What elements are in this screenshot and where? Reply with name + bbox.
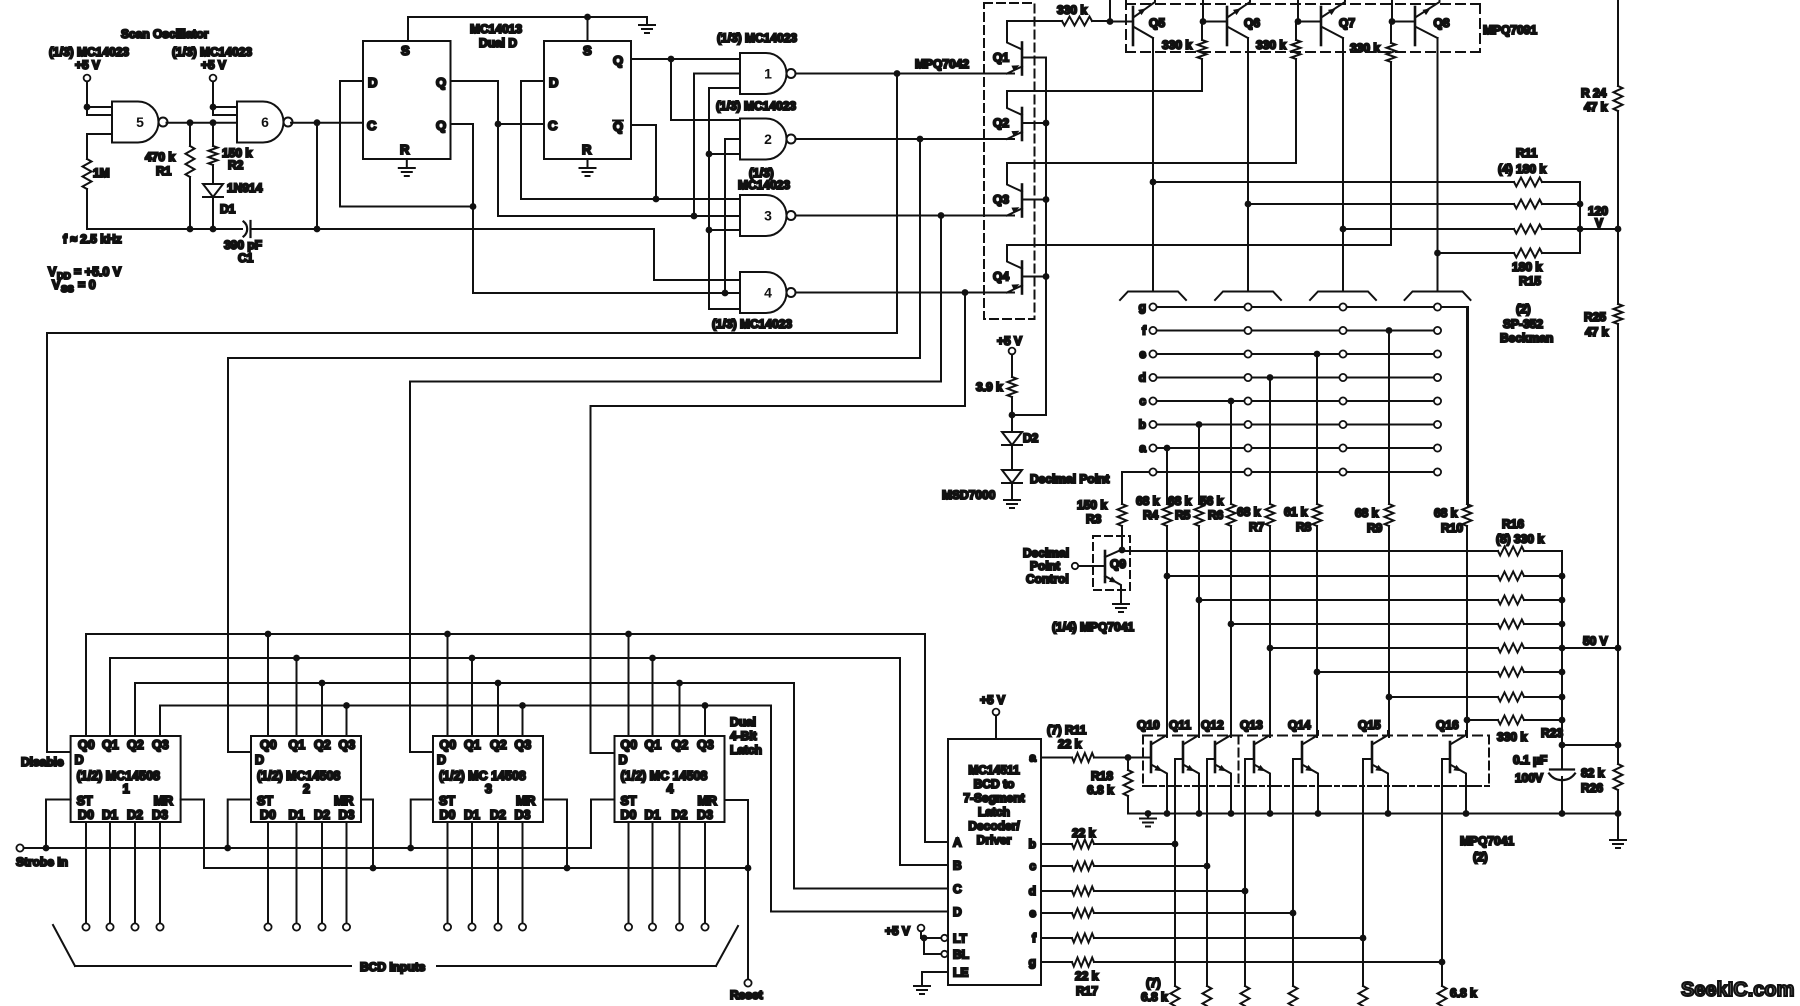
junction R5 to R16 row3 <box>1196 597 1203 604</box>
svg-text:Q: Q <box>613 53 623 68</box>
wire gate5 output <box>167 122 238 124</box>
wire latch Q1 riser x296.5 <box>296 658 298 736</box>
svg-text:68 k: 68 k <box>1434 506 1458 520</box>
wire segment row a <box>1153 447 1438 449</box>
wire gate5 input2 <box>87 114 112 116</box>
resistor R8 61 k <box>1313 504 1322 526</box>
svg-text:S: S <box>583 43 592 58</box>
wire b output <box>1041 843 1072 845</box>
wire Q3 collector line <box>1007 59 1296 163</box>
dashed box Q9 <box>1093 536 1130 590</box>
wire e junction to 6.8k <box>1292 913 1294 986</box>
junction FF1 Qbar feedback node <box>470 203 477 210</box>
wire d junction to Q base <box>1245 759 1254 891</box>
ground FF1 R <box>399 168 415 176</box>
svg-text:150 k: 150 k <box>1077 498 1107 512</box>
junction R6 to R16 row4 <box>1228 621 1235 628</box>
svg-text:D: D <box>619 753 628 767</box>
wire Q1-Q4 base bus <box>1045 58 1047 416</box>
junction gate1 output drop <box>894 70 901 77</box>
wire dp row to R3 <box>1121 472 1123 504</box>
wire R26 bottom stub <box>1617 790 1619 814</box>
wire strobe line <box>24 800 615 849</box>
wire FF2 Q to gate2 top <box>671 59 740 120</box>
diode D2 <box>1002 432 1022 445</box>
transistor Q3 (MPQ7042 pnp) <box>1007 164 1046 217</box>
svg-text:ST: ST <box>77 794 93 808</box>
junction R16 row3 bus <box>1559 597 1566 604</box>
junction d row to R7 column <box>1267 374 1274 381</box>
wire rail R25 down <box>1617 324 1619 745</box>
svg-text:D2: D2 <box>314 808 330 822</box>
terminal latch4 D2 <box>676 923 683 930</box>
svg-text:3: 3 <box>485 782 492 796</box>
resistor R24 47k <box>1614 86 1623 111</box>
ground right rail <box>1610 840 1626 848</box>
wire R10 top column <box>1466 307 1468 504</box>
wire Q2 bus to MC14511 C <box>135 683 948 889</box>
svg-text:(1/3) MC14023: (1/3) MC14023 <box>716 99 796 113</box>
svg-text:68 k: 68 k <box>1237 505 1261 519</box>
transistor Q14 (MPQ7041) <box>1302 731 1318 814</box>
wire 3.9k to D2 <box>1011 397 1013 432</box>
svg-text:47 k: 47 k <box>1585 325 1609 339</box>
wire latch Q1 riser x652.5 <box>652 658 654 736</box>
wire R4 top column <box>1166 448 1168 504</box>
wire segment row c <box>1153 400 1438 402</box>
resistor 22k c <box>1072 862 1094 871</box>
svg-text:(2): (2) <box>1473 850 1488 864</box>
svg-text:LE: LE <box>953 966 968 980</box>
svg-text:4-Bit: 4-Bit <box>730 729 757 743</box>
svg-text:= 0: = 0 <box>78 278 96 292</box>
wire +5V to gate5 inputs <box>86 81 88 115</box>
svg-text:22 k: 22 k <box>1058 737 1082 751</box>
svg-text:R9: R9 <box>1367 521 1383 535</box>
svg-text:A: A <box>953 836 962 850</box>
junction Q2 base on bus <box>1043 120 1050 127</box>
transistor Q12 (MPQ7041) <box>1215 731 1231 814</box>
NAND gate 4 (1/3 MC14023) <box>740 272 796 313</box>
svg-text:5: 5 <box>136 114 144 130</box>
junction strobe latch1 <box>43 845 50 852</box>
wire latch3 D1 input <box>471 822 473 923</box>
resistor R6 56 k <box>1227 504 1236 526</box>
node display circle b3 <box>1339 421 1346 428</box>
junction FF2 S on S line <box>584 14 591 21</box>
resistor 6.8k g (cut at bottom) <box>1438 986 1447 1006</box>
wire latch2 D2 input <box>321 822 323 923</box>
wire BCD brace left line <box>75 965 351 967</box>
node display circle g4 <box>1434 303 1441 310</box>
wire latch4 D2 input <box>679 822 681 923</box>
wire R9 top column <box>1388 331 1390 505</box>
resistor R16-8 330k <box>1498 716 1524 725</box>
svg-text:MR: MR <box>154 794 173 808</box>
svg-text:Latch: Latch <box>730 743 762 757</box>
dashed box MPQ7042 Q1-Q4 <box>984 3 1035 319</box>
wire R16 row8 line <box>1467 719 1498 721</box>
junction 120V on rail <box>1615 226 1622 233</box>
svg-text:D2: D2 <box>1023 431 1039 445</box>
svg-text:+5 V: +5 V <box>201 58 226 72</box>
wire R16 row1 to bus <box>1524 551 1562 720</box>
wire Q8 collector column <box>1437 38 1439 292</box>
display digit 1 common anode symbol <box>1120 292 1186 301</box>
dashed box MPQ7041 top edge <box>1143 735 1489 737</box>
terminal latch3 D2 <box>494 923 501 930</box>
svg-text:+5 V: +5 V <box>980 693 1005 707</box>
terminal latch3 D3 <box>519 923 526 930</box>
svg-text:Q0: Q0 <box>621 738 638 752</box>
NAND gate 6 (1/3 MC14023) <box>237 102 293 143</box>
wire FF1 Qbar down <box>451 124 474 293</box>
resistor R7 68 k <box>1266 504 1275 526</box>
svg-text:Q1: Q1 <box>993 51 1009 65</box>
NAND gate 1 (1/3 MC14023) <box>740 53 796 94</box>
svg-text:Scan Oscillator: Scan Oscillator <box>121 27 209 41</box>
svg-text:R23: R23 <box>1541 726 1563 740</box>
junction Q0 bus x628.5 <box>625 631 632 638</box>
svg-text:Decimal: Decimal <box>1023 546 1069 560</box>
svg-text:D: D <box>953 905 962 919</box>
junction e row to R8 column <box>1314 351 1321 358</box>
wire latch4 D1 input <box>652 822 654 923</box>
junction FF2 Qbar on gate3 top line <box>653 196 660 203</box>
junction gate6 input3 / R2 top <box>210 119 217 126</box>
junction Q7 base <box>1295 18 1302 25</box>
junction Q5 collector to 180k row1 <box>1150 179 1157 186</box>
svg-text:Q1: Q1 <box>289 738 306 752</box>
wire R16 row5 to bus <box>1524 647 1562 649</box>
svg-text:3: 3 <box>764 208 772 224</box>
wire R9 bottom column <box>1388 526 1390 737</box>
wire g output <box>1041 961 1072 963</box>
svg-text:Disable: Disable <box>21 755 64 769</box>
wire gate2 mid input from gate4 mid line <box>725 139 740 293</box>
svg-text:D3: D3 <box>515 808 531 822</box>
svg-text:Q3: Q3 <box>697 738 714 752</box>
node display circle e2 <box>1244 350 1251 357</box>
junction R16 row2 bus <box>1559 573 1566 580</box>
svg-text:82 k: 82 k <box>1581 766 1605 780</box>
junction Q16 emitter on bus <box>1463 810 1470 817</box>
terminal +5V gate6 <box>210 75 217 82</box>
node display circle e3 <box>1339 350 1346 357</box>
ground LE <box>914 986 930 994</box>
terminal latch4 D1 <box>649 923 656 930</box>
resistor 22k g <box>1072 958 1094 967</box>
resistor R16-7 330k <box>1498 693 1524 702</box>
ground Q9 emitter <box>1113 600 1129 612</box>
wire strobe to latch1 ST <box>46 800 71 849</box>
svg-text:D1: D1 <box>289 808 305 822</box>
node display circle f2 <box>1244 327 1251 334</box>
node display circle d3 <box>1339 374 1346 381</box>
wire FF2 Qbar down <box>631 125 656 199</box>
wire Q7 base stub to top edge <box>1297 0 1299 22</box>
svg-text:6: 6 <box>261 114 269 130</box>
wire d line to junction <box>1094 890 1245 892</box>
resistor R3 150k <box>1118 504 1127 526</box>
svg-text:R8: R8 <box>1296 520 1312 534</box>
svg-text:C: C <box>548 118 558 133</box>
junction R4 to R16 row2 <box>1164 573 1171 580</box>
transistor Q6 (MPQ7091) <box>1227 0 1250 45</box>
svg-text:BCD Inputs: BCD Inputs <box>360 960 426 974</box>
junction 50V on rail <box>1615 645 1622 652</box>
junction gate6 output drop on feedback line <box>314 226 321 233</box>
wire 180k row4 <box>1438 252 1515 254</box>
ground emitter bus <box>1140 814 1156 827</box>
wire FF1 D feedback <box>340 81 473 207</box>
wire R7 top column <box>1269 378 1271 505</box>
wire 180k row1 to bus <box>1542 182 1580 253</box>
junction Q3 bus x346.5 <box>343 702 350 709</box>
wire b junction to Q base <box>1175 759 1183 844</box>
wire 180k row2 <box>1248 203 1514 205</box>
svg-text:(1/2) MC14508: (1/2) MC14508 <box>257 769 340 783</box>
wire Q6 base stub to top edge <box>1202 0 1204 22</box>
svg-text:Q10: Q10 <box>1137 718 1160 732</box>
resistor R10 68 k <box>1463 504 1472 526</box>
wire oscillator feedback line left <box>87 228 242 230</box>
svg-text:22 k: 22 k <box>1075 969 1099 983</box>
wire latch4 D3 input <box>704 822 706 923</box>
svg-text:Driver: Driver <box>977 833 1012 847</box>
wire g line to junction <box>1094 961 1442 963</box>
wire Q1 collector line <box>1007 20 1062 22</box>
wire Q1-4 emitter bus to D2 node <box>1012 414 1046 416</box>
svg-text:R10: R10 <box>1441 521 1463 535</box>
svg-text:Q1: Q1 <box>102 738 119 752</box>
transistor Q16 (MPQ7041) <box>1450 731 1466 814</box>
ground MSD7000 <box>1004 500 1020 508</box>
transistor Q15 (MPQ7041) <box>1372 731 1388 814</box>
wire R16 row3 line <box>1199 599 1498 601</box>
svg-text:LT: LT <box>953 932 967 946</box>
wire main right rail <box>1617 0 1619 86</box>
resistor 3.9k <box>1008 377 1017 397</box>
wire latch Q0 riser x447.5 <box>447 634 449 736</box>
wire R2 top stub <box>212 123 214 146</box>
svg-text:(1/3) MC14023: (1/3) MC14023 <box>49 45 129 59</box>
svg-text:SeekIC.com: SeekIC.com <box>1681 979 1794 1001</box>
svg-text:f ≈ 2.5 kHz: f ≈ 2.5 kHz <box>63 232 122 246</box>
svg-text:6.8 k: 6.8 k <box>1141 990 1168 1004</box>
wire R18 top stub <box>1127 758 1129 771</box>
wire Q6 base <box>1203 21 1227 23</box>
wire R16 row6 line <box>1317 671 1498 673</box>
wire gate5 input3 to 1M <box>87 134 112 159</box>
wire Q6 collector column <box>1247 38 1249 292</box>
node display circle e1 <box>1149 350 1156 357</box>
svg-text:b: b <box>1139 418 1146 432</box>
junction a row to R4 column <box>1164 445 1171 452</box>
svg-text:Q0: Q0 <box>440 738 457 752</box>
resistor R1 470k <box>186 146 195 177</box>
junction LT/BL node <box>921 935 928 942</box>
svg-text:MPQ7041: MPQ7041 <box>1460 834 1514 848</box>
svg-text:470 k: 470 k <box>145 150 175 164</box>
svg-text:Q1: Q1 <box>645 738 662 752</box>
svg-text:R 24: R 24 <box>1581 86 1607 100</box>
svg-text:Q: Q <box>436 75 446 90</box>
svg-text:Q6: Q6 <box>1244 16 1260 30</box>
wire R8 top column <box>1316 354 1318 504</box>
svg-text:MC14023: MC14023 <box>738 178 790 192</box>
svg-text:ST: ST <box>621 794 637 808</box>
svg-text:(1/3) MC14023: (1/3) MC14023 <box>172 45 252 59</box>
junction a node R18 <box>1125 754 1132 761</box>
resistor R16-4 330k <box>1498 620 1524 629</box>
capacitor 0.1uF 100V <box>1549 770 1575 781</box>
wire e output <box>1041 912 1072 914</box>
svg-text:Q11: Q11 <box>1169 718 1191 732</box>
junction Q5 base <box>1107 18 1114 25</box>
junction Q12 emitter on bus <box>1228 810 1235 817</box>
svg-text:BCD to: BCD to <box>974 777 1015 791</box>
svg-text:Decoder/: Decoder/ <box>968 819 1020 833</box>
wire R3 to Q9 collector node <box>1121 526 1123 550</box>
dashed box MPQ7091 bottom edge <box>1126 51 1480 53</box>
junction gate6 output to C1 drop <box>314 119 321 126</box>
svg-text:+5 V: +5 V <box>75 58 100 72</box>
junction Q3 base on bus <box>1043 196 1050 203</box>
svg-text:V: V <box>1595 216 1603 230</box>
wire segment row g <box>1153 306 1468 308</box>
svg-text:Q3: Q3 <box>152 738 169 752</box>
wire 180k row1 <box>1153 181 1514 183</box>
svg-text:D2: D2 <box>490 808 506 822</box>
junction gate2 bottom input <box>706 151 713 158</box>
wire decimal point row <box>1122 471 1438 473</box>
transistor Q13 (MPQ7041) <box>1254 731 1270 814</box>
svg-text:D: D <box>549 75 558 90</box>
wire gate1 mid input from gate3 mid line <box>694 74 740 217</box>
wire emitter bus <box>1128 813 1618 815</box>
svg-text:330 k: 330 k <box>1350 41 1380 55</box>
terminal latch4 D0 <box>625 923 632 930</box>
diode D1 1N914 <box>203 184 223 197</box>
junction gate3 bottom input <box>706 227 713 234</box>
junction Q6 base <box>1200 18 1207 25</box>
dashed box MPQ7041 divider <box>1238 736 1240 787</box>
svg-text:6.8 k: 6.8 k <box>1450 986 1477 1000</box>
junction Q7 collector to 180k row3 <box>1340 226 1347 233</box>
node display circle c3 <box>1339 397 1346 404</box>
junction R9 to R16 row7 <box>1386 694 1393 701</box>
wire R16 row5 line <box>1270 647 1498 649</box>
junction Q2 bus x498 <box>495 680 502 687</box>
wire g junction to Q base <box>1442 759 1450 962</box>
svg-text:330 k: 330 k <box>1256 38 1286 52</box>
wire c output <box>1041 865 1072 867</box>
svg-text:D1: D1 <box>645 808 661 822</box>
svg-text:MR: MR <box>334 794 353 808</box>
junction e node <box>1290 910 1297 917</box>
resistor 180k row3 (R13) <box>1514 225 1542 234</box>
junction gate3 output drop <box>938 212 945 219</box>
wire FF2 Q to gate1 <box>631 58 740 60</box>
wire Q5 base stub to top edge <box>1109 0 1111 22</box>
svg-text:Q14: Q14 <box>1288 718 1311 732</box>
terminal +5V MC14511 <box>993 709 1000 716</box>
svg-text:Q8: Q8 <box>1434 16 1450 30</box>
svg-text:50 V: 50 V <box>1583 634 1608 648</box>
wire FF2 D feedback <box>521 81 740 199</box>
flip-flop FF1 (1/2 MC14013) box <box>363 41 451 159</box>
diode MSD7000 <box>1002 470 1022 483</box>
wire LT node to BL <box>924 938 941 954</box>
node display circle a2 <box>1244 444 1251 451</box>
wire R6 top column <box>1230 401 1232 504</box>
junction R8 to R16 row6 <box>1314 669 1321 676</box>
svg-text:MC14511: MC14511 <box>968 763 1020 777</box>
resistor 22k b <box>1072 840 1094 849</box>
wire latch Q1 riser x472 <box>471 658 473 736</box>
wire R16 row7 line <box>1389 696 1498 698</box>
svg-text:(2): (2) <box>1516 302 1531 316</box>
svg-text:D0: D0 <box>78 808 94 822</box>
svg-text:V: V <box>48 265 57 279</box>
svg-text:+5 V: +5 V <box>997 334 1022 348</box>
wire gate4 mid input line <box>473 292 740 294</box>
wire gate6 input1 <box>213 106 237 108</box>
capacitor C1 390pF <box>244 221 251 237</box>
wire D1 to feedback line <box>212 197 214 229</box>
wire R16 row7 to bus <box>1524 696 1562 698</box>
svg-text:180 k: 180 k <box>1512 260 1542 274</box>
svg-text:MR: MR <box>516 794 535 808</box>
svg-text:D: D <box>437 753 446 767</box>
svg-text:100V: 100V <box>1515 771 1543 785</box>
wire latch3 D2 input <box>497 822 499 923</box>
wire segment row d <box>1153 377 1438 379</box>
junction cap bottom on emitter bus <box>1559 810 1566 817</box>
IC latch 1 MC14508 box <box>71 736 181 822</box>
node display circle d1 <box>1149 374 1156 381</box>
svg-text:(1/2) MC 14508: (1/2) MC 14508 <box>621 769 708 783</box>
wire e line to junction <box>1094 912 1293 914</box>
svg-text:(1/3) MC14023: (1/3) MC14023 <box>717 31 797 45</box>
node display circle e4 <box>1434 350 1441 357</box>
svg-text:Beckman: Beckman <box>1500 331 1553 345</box>
svg-text:Dual D: Dual D <box>479 36 517 50</box>
resistor R25 47k <box>1614 304 1623 324</box>
svg-text:1M: 1M <box>93 166 110 180</box>
wire +5V to 3.9k <box>1011 354 1013 377</box>
svg-text:390 pF: 390 pF <box>224 238 262 252</box>
wire gate3 drop to latch3 D <box>410 216 941 753</box>
svg-text:V: V <box>52 278 61 292</box>
svg-text:MSD7000: MSD7000 <box>942 488 996 502</box>
svg-text:330 k: 330 k <box>1497 730 1527 744</box>
svg-text:6.8 k: 6.8 k <box>1087 783 1114 797</box>
wire latch2 D3 input <box>346 822 348 923</box>
terminal latch2 D2 <box>318 923 325 930</box>
display digit 2 common anode symbol <box>1215 292 1281 301</box>
wire R16 bus to cap node <box>1562 720 1618 745</box>
svg-text:(7): (7) <box>1146 976 1161 990</box>
svg-text:D3: D3 <box>152 808 168 822</box>
wire Q8 base <box>1392 21 1415 23</box>
transistor Q10 (MPQ7041) <box>1151 731 1167 814</box>
node display circle f4 <box>1434 327 1441 334</box>
junction f node <box>1360 935 1367 942</box>
junction Q0 bus x447.5 <box>444 631 451 638</box>
wire gate1 drop to Disable/latch1 D <box>47 74 897 753</box>
